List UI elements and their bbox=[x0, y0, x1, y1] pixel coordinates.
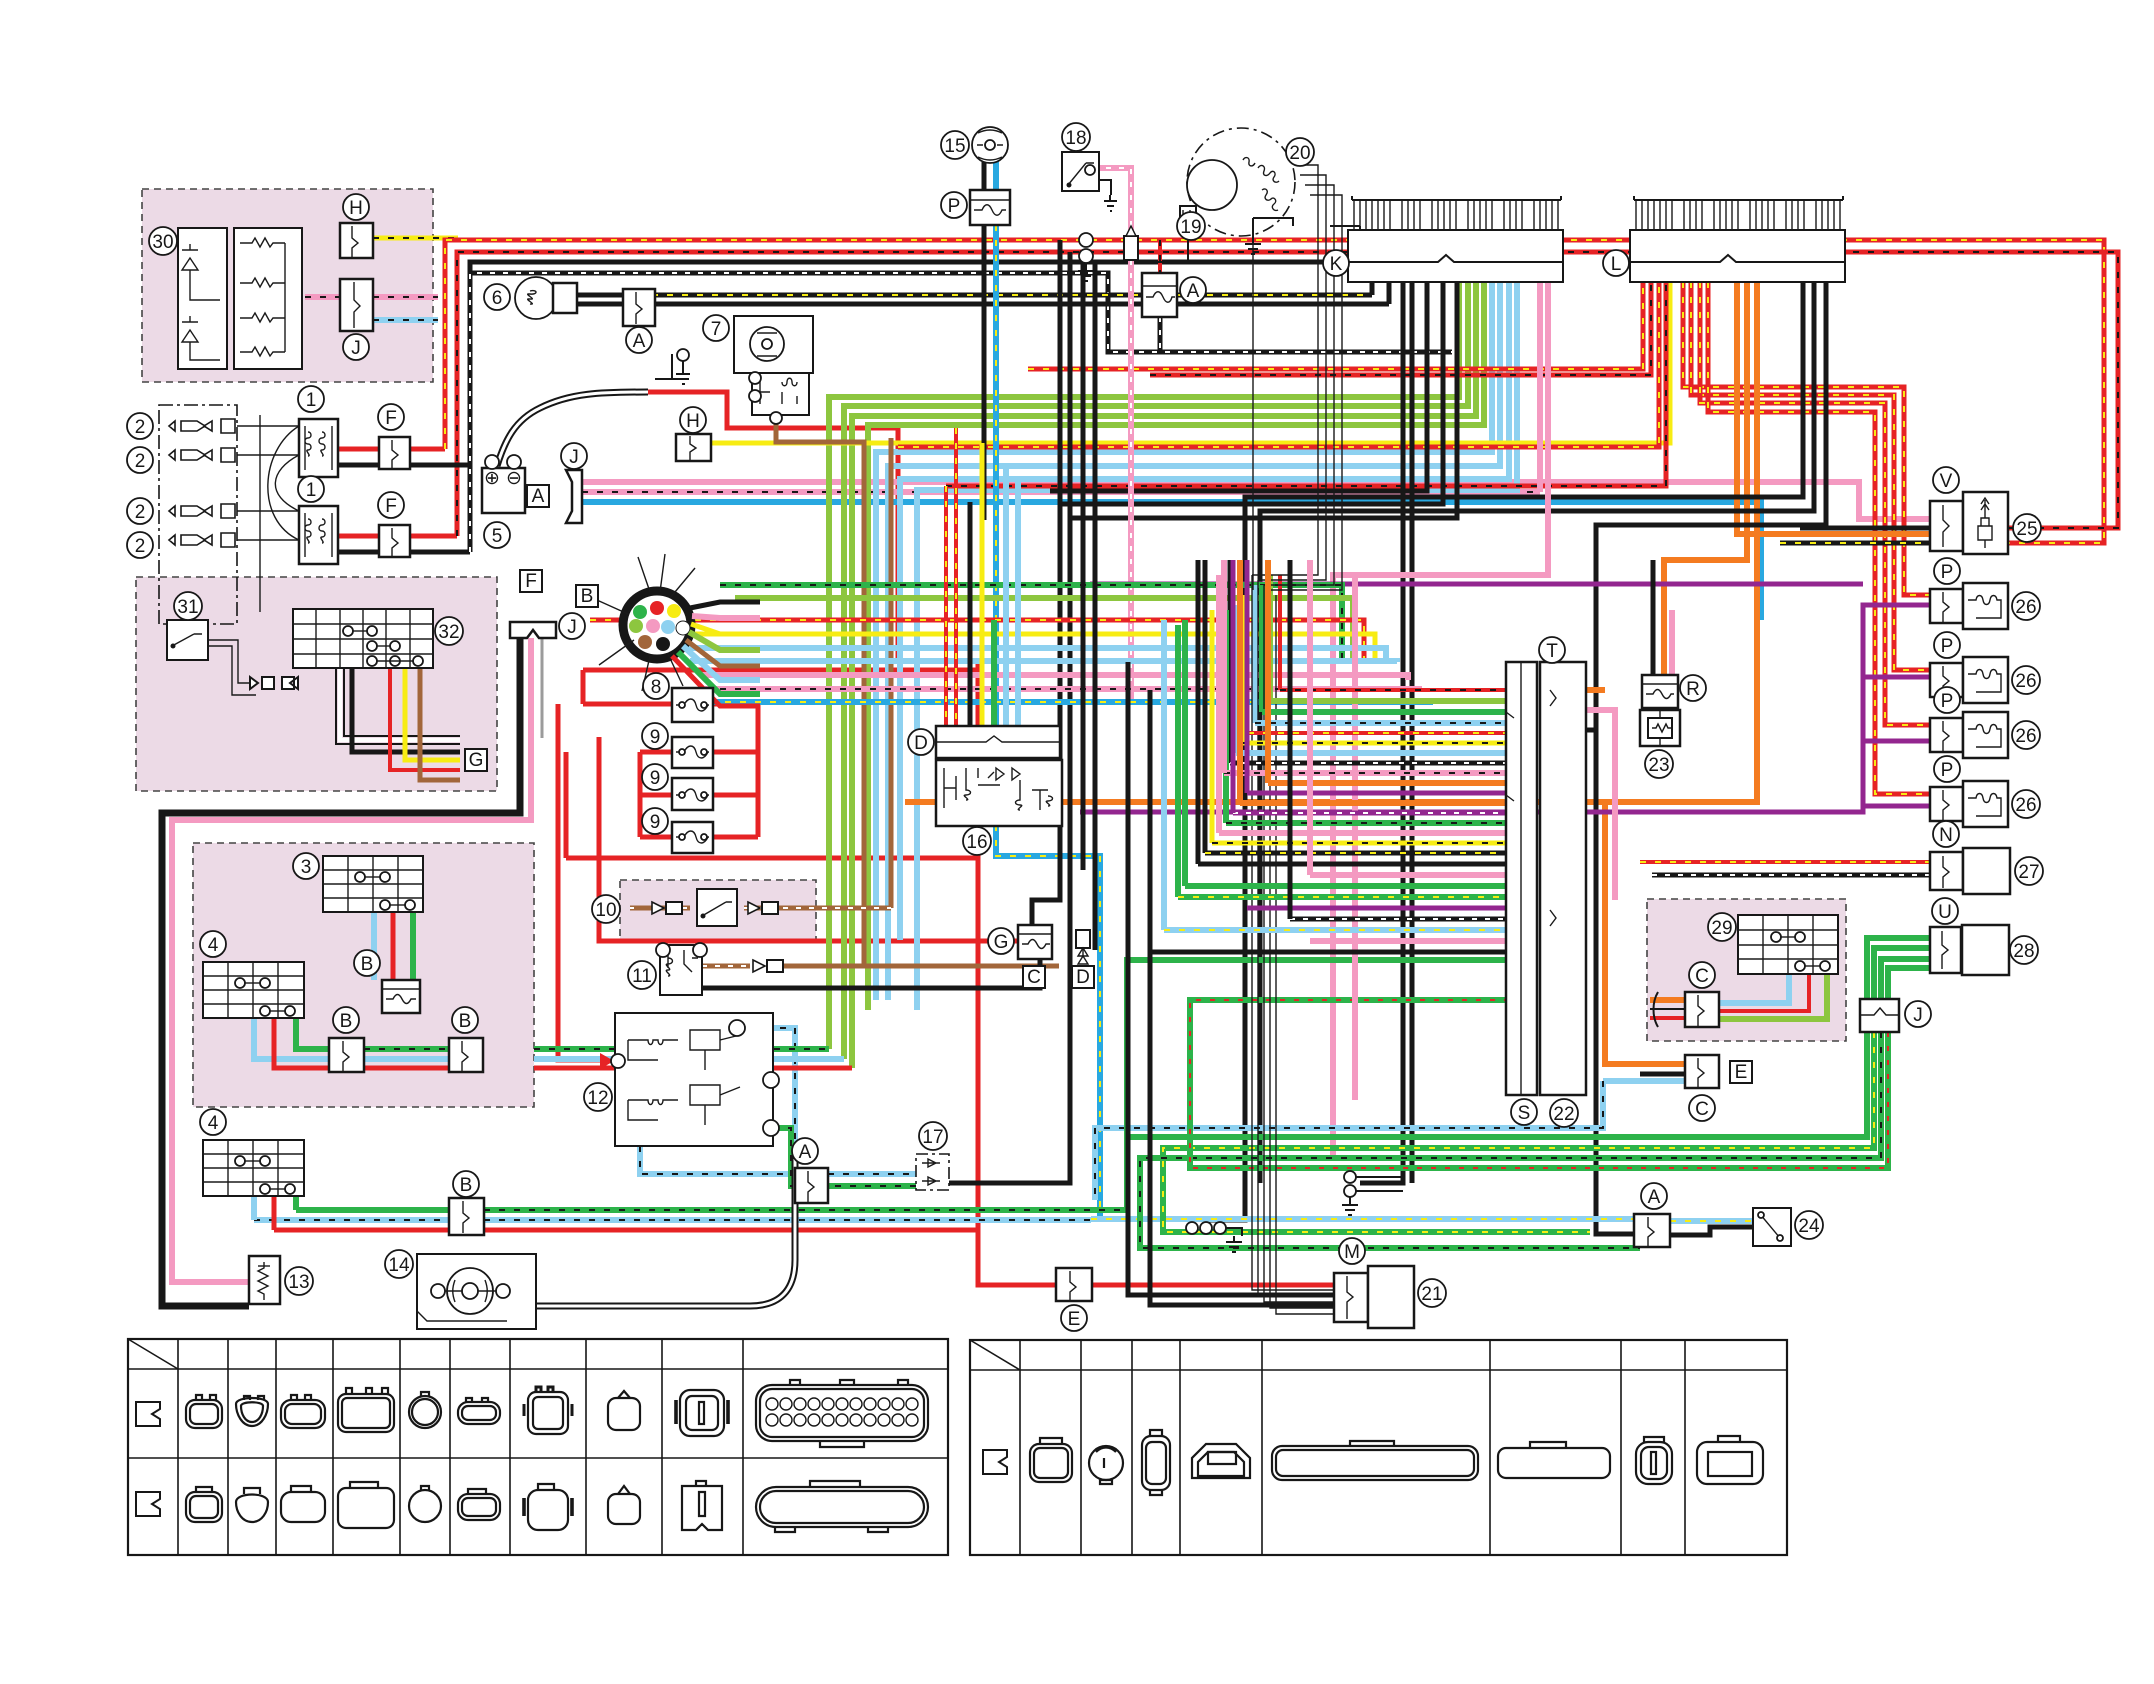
fuse 8 bbox=[672, 688, 713, 722]
label R bbox=[1680, 675, 1706, 701]
svg-text:17: 17 bbox=[922, 1127, 943, 1148]
wire ECU comb left bbox=[1280, 688, 1506, 692]
svg-text:29: 29 bbox=[1711, 918, 1732, 939]
label 3 bbox=[293, 853, 319, 879]
wire brown starter relay bbox=[776, 415, 1059, 966]
headlight housing dashdot bbox=[159, 405, 237, 624]
relay box 4b bbox=[203, 1140, 304, 1196]
label T bbox=[1539, 637, 1565, 663]
wire black headlamp 2 bbox=[577, 302, 1389, 307]
legend shape r2c6 bbox=[458, 1494, 500, 1520]
fuse E right bbox=[1685, 1055, 1719, 1088]
G label box bbox=[465, 749, 487, 771]
legend shape r2c1 bbox=[186, 1492, 222, 1522]
legend shape r2c4 bbox=[338, 1488, 394, 1528]
fuse A right bbox=[1634, 1214, 1670, 1247]
wire box7 ground bbox=[655, 354, 689, 379]
wire light blue band 3 bbox=[900, 282, 1509, 940]
sensor 28 bbox=[1962, 925, 2009, 975]
wire black K down 2 bbox=[1387, 282, 1392, 304]
label F1 bbox=[378, 404, 404, 430]
ground bullets bottom mid bbox=[1186, 1222, 1198, 1234]
legend shape r2c8 bbox=[608, 1494, 640, 1524]
svg-text:C: C bbox=[1695, 1099, 1709, 1120]
label 27 bbox=[2015, 857, 2043, 885]
resistor 13 bbox=[249, 1256, 280, 1304]
fuse B mid bbox=[382, 980, 420, 1013]
svg-text:30: 30 bbox=[152, 232, 173, 253]
label B left bbox=[333, 1007, 359, 1033]
legend shape r1c7 bbox=[528, 1392, 568, 1434]
box 29 pink bbox=[1647, 899, 1846, 1041]
wire black K left 7 bbox=[1070, 282, 1457, 518]
legend shape rt c6 bbox=[1498, 1448, 1610, 1478]
svg-text:J: J bbox=[569, 447, 579, 468]
label 9b bbox=[642, 764, 668, 790]
label 29 bbox=[1708, 913, 1736, 941]
wire pink center band 1 bbox=[700, 675, 1408, 680]
label H mid bbox=[680, 407, 706, 433]
E label box right bbox=[1730, 1061, 1752, 1083]
wire lime green band 2 bbox=[844, 282, 1468, 1059]
svg-text:5: 5 bbox=[492, 526, 503, 547]
wire red to relay12 bbox=[558, 704, 978, 1060]
svg-text:J: J bbox=[351, 338, 361, 359]
legend shape r2c7 bbox=[528, 1490, 568, 1530]
svg-text:B: B bbox=[581, 586, 594, 607]
svg-text:19: 19 bbox=[1180, 217, 1201, 238]
wire red fuse9 rows bbox=[640, 704, 758, 837]
wire gray F conn bbox=[541, 638, 544, 738]
fuse 9a bbox=[672, 737, 713, 768]
wire black L long 2 bbox=[1260, 282, 1814, 1183]
label A right bbox=[1641, 1183, 1667, 1209]
label 30 bbox=[149, 227, 177, 255]
wire orange long to E bbox=[1605, 282, 1757, 1064]
meter assembly box 30 pink bbox=[142, 189, 433, 382]
wire red/yellow main feed top bbox=[410, 240, 2104, 543]
label 26d bbox=[2012, 790, 2040, 818]
wire pink center extra bbox=[1352, 575, 1358, 1100]
switch 18 bbox=[1062, 152, 1099, 191]
relay 11 bbox=[660, 945, 702, 995]
connector B fan wires bbox=[690, 602, 760, 608]
wire black L long 1 bbox=[1205, 282, 1803, 1220]
svg-text:L: L bbox=[1611, 254, 1622, 275]
meter unit left bbox=[178, 228, 227, 369]
ECU 22 bbox=[1540, 662, 1586, 1095]
svg-text:18: 18 bbox=[1065, 128, 1086, 149]
wire 19 pins bbox=[1148, 230, 1188, 262]
wire red box3 out bbox=[534, 1066, 852, 1071]
label V bbox=[1933, 467, 1959, 493]
svg-text:23: 23 bbox=[1648, 755, 1669, 776]
label 7 bbox=[703, 315, 729, 341]
svg-text:25: 25 bbox=[2016, 519, 2037, 540]
wire brown box10 bbox=[630, 438, 891, 908]
battery 5 bbox=[482, 468, 525, 513]
svg-text:24: 24 bbox=[1798, 1216, 1820, 1237]
svg-text:14: 14 bbox=[388, 1255, 410, 1276]
label P4 bbox=[1934, 756, 1960, 782]
wire green center band bbox=[720, 585, 1342, 662]
label 19 bbox=[1177, 212, 1205, 240]
svg-text:26: 26 bbox=[2015, 671, 2036, 692]
wire V25 inputs bbox=[1780, 528, 1930, 543]
fuse C 29 bbox=[1685, 992, 1719, 1027]
fuse F1 bbox=[379, 437, 410, 469]
fuse 9c bbox=[672, 822, 713, 853]
svg-text:H: H bbox=[349, 198, 363, 219]
wire black bottom left thick bbox=[162, 638, 520, 1306]
wire ECU comb dashes bbox=[1212, 690, 1506, 843]
legend shape r2c3 bbox=[281, 1492, 325, 1522]
wire lightblue dash E right bbox=[1095, 1081, 1685, 1200]
label J mid bbox=[561, 443, 587, 469]
legend notch female bbox=[136, 1492, 160, 1516]
label B conn bbox=[576, 585, 598, 607]
A label box left bbox=[527, 485, 549, 507]
svg-text:16: 16 bbox=[966, 832, 987, 853]
svg-text:A: A bbox=[1187, 281, 1200, 302]
svg-text:9: 9 bbox=[650, 727, 661, 748]
wire yellow dash from fuse H box30 bbox=[373, 236, 458, 241]
svg-text:26: 26 bbox=[2015, 726, 2036, 747]
label U bbox=[1932, 898, 1958, 924]
wire lime green band 1 bbox=[829, 282, 1459, 1049]
wire orange band left bbox=[905, 799, 1605, 805]
wire box3 internals bbox=[371, 912, 377, 980]
legend shape r1c6 bbox=[458, 1402, 500, 1424]
wire red battery to fuses bbox=[648, 392, 898, 664]
switch box 31-32 pink bbox=[136, 577, 497, 791]
svg-text:A: A bbox=[1648, 1187, 1661, 1208]
relay box 3 bbox=[323, 856, 423, 912]
wire 31 to 32 thin bbox=[208, 640, 256, 695]
wire thin magneto leads bbox=[1252, 575, 1334, 1314]
label 1b bbox=[298, 476, 324, 502]
wire yellow D16 pin bbox=[980, 443, 985, 726]
label 22 bbox=[1550, 1099, 1578, 1127]
wire red-dash L to band bbox=[898, 282, 1659, 447]
wire R23 pins bbox=[1651, 560, 1656, 675]
label 2a bbox=[127, 413, 153, 439]
wire ECU verticals left bbox=[1233, 560, 1247, 813]
label 9c bbox=[642, 808, 668, 834]
label 10 bbox=[592, 895, 620, 923]
legend shape r1c10 24pin bbox=[756, 1385, 928, 1441]
ground bullets mid bbox=[1079, 233, 1093, 247]
label 12 bbox=[584, 1083, 612, 1111]
wire lightblue D16 pins bbox=[1006, 466, 1018, 726]
svg-text:8: 8 bbox=[651, 677, 662, 698]
label L bbox=[1603, 250, 1629, 276]
label K bbox=[1323, 250, 1349, 276]
ignition coil 26c bbox=[1963, 712, 2008, 758]
legend shape rt c1 bbox=[1030, 1444, 1072, 1482]
svg-text:K: K bbox=[1330, 254, 1343, 275]
svg-text:6: 6 bbox=[492, 288, 503, 309]
ignition coil 26c fuse bbox=[1930, 718, 1963, 752]
svg-text:G: G bbox=[469, 750, 484, 771]
svg-text:31: 31 bbox=[177, 597, 198, 618]
label F2 bbox=[378, 492, 404, 518]
svg-text:A: A bbox=[799, 1142, 812, 1163]
connector J right bbox=[1860, 999, 1899, 1032]
svg-text:28: 28 bbox=[2013, 941, 2034, 962]
label P2 bbox=[1934, 632, 1960, 658]
label N bbox=[1933, 821, 1959, 847]
wire pink switch 18 bbox=[1093, 168, 1131, 700]
fuse A left bbox=[795, 1168, 828, 1203]
legend shape rt c7 bbox=[1636, 1442, 1672, 1484]
fuse P top bbox=[970, 190, 1010, 225]
meter unit right resistors bbox=[234, 228, 302, 369]
svg-text:T: T bbox=[1546, 641, 1558, 662]
magneto 20 bbox=[1187, 128, 1295, 236]
wire black K down 4 bbox=[1410, 282, 1415, 1183]
svg-text:C: C bbox=[1027, 967, 1041, 988]
wire green J right wrap 2 bbox=[1163, 948, 1930, 1232]
svg-text:V: V bbox=[1940, 471, 1953, 492]
label G mid bbox=[988, 928, 1014, 954]
wire black D16 pin bbox=[968, 502, 973, 726]
fuse E bottom bbox=[1056, 1268, 1092, 1301]
D label box mid bbox=[1072, 966, 1094, 988]
legend shape rt c8 bbox=[1697, 1442, 1763, 1484]
label 15 bbox=[941, 131, 969, 159]
svg-text:E: E bbox=[1068, 1309, 1081, 1330]
wire black dash-dot top bbox=[410, 273, 1452, 552]
headlight relay 1b bbox=[299, 506, 338, 564]
svg-text:B: B bbox=[340, 1011, 353, 1032]
connector B ring bbox=[623, 591, 691, 659]
legend shape r2c5 bbox=[409, 1490, 441, 1522]
label C29 bbox=[1689, 962, 1715, 988]
wire black long vertical to M 2 bbox=[1150, 690, 1334, 1305]
legend shape r2c10 oval bbox=[756, 1487, 928, 1527]
label 28 bbox=[2010, 936, 2038, 964]
label A mid bbox=[1180, 277, 1206, 303]
svg-text:2: 2 bbox=[135, 502, 146, 523]
wire pink from fuse J box30 bbox=[305, 294, 438, 300]
wire C29 inputs bbox=[1650, 997, 1685, 1003]
fuse G bbox=[1018, 925, 1052, 959]
wire green J right wrap 3 bbox=[1140, 959, 1930, 1248]
wire 15 stub bbox=[982, 162, 987, 190]
relay box 4 bbox=[203, 962, 304, 1018]
label B mid bbox=[354, 950, 380, 976]
junction table 29 bbox=[1738, 915, 1838, 974]
wire lime green band 3 bbox=[852, 282, 1476, 1068]
label M bbox=[1339, 1238, 1365, 1264]
wire pink K down 2 bbox=[1333, 282, 1548, 1160]
wire green 12 to A bbox=[773, 1128, 916, 1186]
svg-text:1: 1 bbox=[306, 480, 317, 501]
wire yellow center band bbox=[660, 634, 1375, 662]
ground near 7 bbox=[676, 360, 690, 384]
svg-text:M: M bbox=[1344, 1242, 1360, 1263]
spark plug 25 bbox=[1963, 492, 2008, 554]
label 1a bbox=[298, 386, 324, 412]
sidestand switch 14 bbox=[417, 1254, 536, 1329]
wire red coil feed 4 bbox=[1708, 282, 1930, 794]
label 9a bbox=[642, 723, 668, 749]
label 2c bbox=[127, 498, 153, 524]
svg-text:P: P bbox=[1941, 760, 1954, 781]
wire green D16 pin bbox=[991, 620, 997, 726]
label 24 bbox=[1795, 1211, 1823, 1239]
wire N27 input black bbox=[1652, 873, 1930, 878]
legend shape rt c4 bbox=[1192, 1444, 1250, 1478]
label B right bbox=[452, 1007, 478, 1033]
label D mid bbox=[908, 729, 934, 755]
wire red center band bbox=[590, 620, 1364, 662]
wire lightblue bottom long bbox=[254, 1217, 1091, 1223]
svg-text:U: U bbox=[1938, 902, 1952, 923]
label 8 bbox=[643, 673, 669, 699]
wire purple coil bus bbox=[1080, 605, 1930, 812]
sensor 27 bbox=[1963, 848, 2010, 894]
wire red-dash L to D16 bbox=[946, 282, 1666, 486]
wire blue P switch long bbox=[996, 130, 1100, 1219]
label 6 bbox=[484, 284, 510, 310]
wire light blue band 4 bbox=[917, 282, 1517, 1010]
wire black center 1 bbox=[1032, 240, 1060, 925]
wire 32 bundle down bbox=[340, 668, 460, 740]
svg-text:⊕: ⊕ bbox=[484, 468, 500, 489]
wire E right inputs bbox=[1640, 1072, 1685, 1077]
wire box3 between fuses bbox=[364, 1046, 449, 1052]
wire black center extra 1 bbox=[1081, 252, 1086, 870]
wire gray starter motor cable bbox=[536, 1146, 795, 1306]
wire lightgreen center band bbox=[735, 598, 1353, 662]
sidestand switch 24 bbox=[1753, 1208, 1791, 1246]
wire green dash box3 out bbox=[534, 1046, 829, 1052]
fuse B bottom bbox=[449, 1198, 484, 1235]
svg-text:C: C bbox=[1695, 966, 1709, 987]
svg-text:32: 32 bbox=[438, 622, 459, 643]
wire F1 red/black bbox=[338, 447, 379, 452]
wire ECU stair verticals bbox=[1278, 575, 1282, 690]
svg-text:4: 4 bbox=[208, 935, 219, 956]
svg-text:12: 12 bbox=[587, 1088, 608, 1109]
fuse B right bbox=[449, 1038, 483, 1072]
label 23 bbox=[1645, 750, 1673, 778]
wire red main feed 2 bbox=[410, 252, 2118, 536]
svg-text:27: 27 bbox=[2018, 862, 2039, 883]
wire light blue band 1 bbox=[876, 282, 1492, 1000]
fuse A top bbox=[623, 289, 655, 326]
rectifier D connector bbox=[936, 726, 1060, 758]
label 5 bbox=[484, 522, 510, 548]
label C right bbox=[1689, 1095, 1715, 1121]
label 18 bbox=[1062, 123, 1090, 151]
label 26c bbox=[2012, 721, 2040, 749]
clutch switch V fuse bbox=[1930, 501, 1963, 551]
starter relay 7 bbox=[752, 373, 809, 415]
svg-text:11: 11 bbox=[632, 966, 652, 987]
wire black top bundle bbox=[410, 262, 1348, 465]
ground bullets right mid bbox=[1344, 1171, 1356, 1183]
svg-text:R: R bbox=[1686, 679, 1700, 700]
legend shape rt c2 bbox=[1089, 1446, 1123, 1480]
legend shape r1c1 bbox=[186, 1400, 222, 1428]
label 11 bbox=[628, 961, 656, 989]
svg-text:P: P bbox=[1941, 562, 1954, 583]
wire red coil feed 1 bbox=[1683, 282, 1930, 595]
box 10 pink clutch switch bbox=[620, 880, 816, 940]
label 4 bbox=[200, 931, 226, 957]
wire 18 ground bbox=[1099, 180, 1111, 195]
small fuse 18 line bbox=[1124, 236, 1138, 260]
label P top bbox=[941, 192, 967, 218]
wire headlight internals bbox=[237, 415, 299, 612]
wire headlight crossover bbox=[268, 426, 299, 540]
wire orange to R bbox=[1664, 282, 1747, 675]
svg-text:N: N bbox=[1939, 825, 1953, 846]
ignition coil 26b fuse bbox=[1930, 663, 1963, 697]
ignition coil 26d bbox=[1963, 781, 2008, 827]
wire C29 outputs bbox=[1719, 974, 1789, 1003]
diode block 17 bbox=[916, 1154, 949, 1190]
svg-text:B: B bbox=[459, 1011, 472, 1032]
ignition coil 26b bbox=[1963, 657, 2008, 703]
wire lightblue dash relay12 to A bbox=[735, 1028, 795, 1174]
legend 24pin circles bbox=[766, 1398, 918, 1426]
svg-text:A: A bbox=[532, 486, 545, 507]
wire black/yellow headlamp bbox=[577, 293, 1372, 298]
legend shape r2c9 bbox=[682, 1486, 722, 1530]
label P1 bbox=[1934, 558, 1960, 584]
wire black relay11 bbox=[702, 959, 1040, 988]
connector L block bbox=[1630, 196, 1845, 282]
wire red fuse bus vertical bbox=[583, 664, 1334, 1285]
magneto grounds bbox=[1245, 218, 1368, 254]
wire green bottom long bbox=[296, 1137, 1127, 1210]
resistor 23 bbox=[1640, 710, 1680, 746]
svg-text:10: 10 bbox=[595, 900, 616, 921]
sensor N fuse bbox=[1930, 852, 1963, 890]
wire orange to V bbox=[1737, 282, 1930, 534]
wire black L to A24 bbox=[1596, 282, 1826, 1234]
fuse H box30 bbox=[340, 223, 373, 258]
svg-text:J: J bbox=[1913, 1005, 1923, 1026]
wire red coil feed 2 bbox=[1691, 282, 1930, 670]
connector J left bbox=[566, 470, 582, 523]
svg-text:P: P bbox=[1941, 691, 1954, 712]
svg-text:P: P bbox=[1941, 636, 1954, 657]
wire pink center band 2 bbox=[705, 689, 1419, 692]
svg-text:26: 26 bbox=[2015, 597, 2036, 618]
wire red coil feed 3 bbox=[1700, 282, 1930, 725]
legend shape r1c8 bbox=[608, 1398, 640, 1430]
legend shape r1c3 bbox=[281, 1400, 325, 1428]
label 13 bbox=[285, 1267, 313, 1295]
label A left bbox=[792, 1138, 818, 1164]
headlight bulb arrows bbox=[169, 419, 235, 547]
svg-text:B: B bbox=[460, 1175, 473, 1196]
wire purple band 2 bbox=[1090, 582, 1863, 587]
legend notch right table bbox=[983, 1450, 1007, 1474]
wire lime green band 4 bbox=[868, 282, 1484, 1010]
legend shape r2c2 bbox=[236, 1495, 268, 1523]
svg-text:2: 2 bbox=[135, 536, 146, 557]
legend table right grid bbox=[970, 1340, 1787, 1555]
label H top bbox=[343, 194, 369, 220]
svg-text:1: 1 bbox=[306, 390, 317, 411]
horn 7 bbox=[734, 316, 813, 373]
